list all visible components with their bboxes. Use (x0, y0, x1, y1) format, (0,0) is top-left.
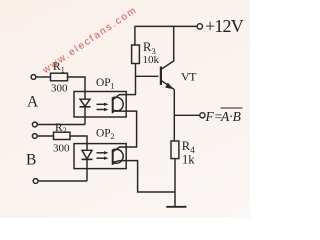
svg-text:B: B (26, 152, 36, 169)
svg-text:1k: 1k (182, 152, 195, 166)
svg-text:300: 300 (51, 82, 68, 94)
svg-text:OP: OP (96, 77, 111, 89)
svg-text:10k: 10k (143, 54, 160, 66)
svg-text:2: 2 (111, 132, 115, 141)
svg-text:R: R (53, 61, 61, 73)
svg-text:R: R (55, 122, 63, 134)
svg-text:OP: OP (96, 127, 111, 139)
svg-text:A: A (27, 94, 39, 111)
svg-text:A·B: A·B (220, 109, 241, 124)
svg-text:1: 1 (61, 65, 65, 74)
svg-text:1: 1 (111, 82, 115, 91)
svg-text:VT: VT (181, 69, 197, 83)
svg-text:2: 2 (63, 126, 67, 135)
svg-text:300: 300 (53, 143, 70, 155)
svg-text:+12V: +12V (205, 16, 244, 36)
